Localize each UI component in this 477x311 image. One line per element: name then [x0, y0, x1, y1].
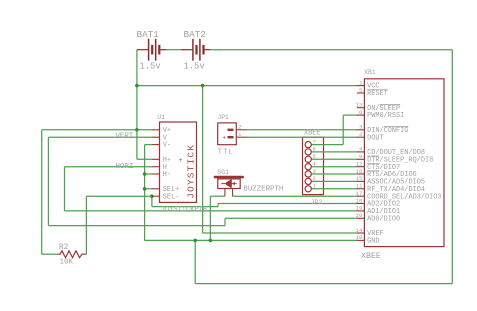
joystick U1 pin stubs	[152, 130, 159, 196]
wire V+ down to H+	[136, 130, 138, 160]
XB1 pin numbers	[356, 79, 363, 241]
svg-text:17: 17	[356, 190, 363, 197]
svg-text:SG1: SG1	[217, 169, 229, 176]
svg-text:16: 16	[356, 168, 363, 175]
U1 pin names	[163, 127, 180, 201]
wire node HORZ to H pin	[65, 166, 153, 168]
svg-text:+: +	[179, 157, 183, 164]
svg-text:TTL: TTL	[218, 148, 234, 156]
wire from BAT2 right along top	[211, 49, 453, 51]
svg-text:+: +	[222, 135, 226, 142]
junction SEL+ row	[143, 187, 147, 191]
wire into H- pin	[145, 173, 153, 175]
wire VERT to AD0 pin	[225, 217, 358, 219]
wire JP2 pin3 to RTS pin	[311, 173, 357, 175]
wire buzzer left leg down	[209, 196, 211, 240]
wire VREF feeder vertical	[202, 86, 204, 233]
svg-text:1: 1	[359, 79, 363, 86]
wire buzzer right to COORD_SEL pin	[233, 195, 358, 197]
wire buzzer left leg horizontal	[210, 195, 225, 197]
junction V+ row	[135, 128, 139, 132]
component box JP1	[218, 123, 237, 145]
wire battery left down to VCC rail	[136, 50, 138, 86]
svg-text:19: 19	[356, 205, 363, 212]
wire VERT bottom run	[48, 225, 225, 227]
svg-text:1.5v: 1.5v	[140, 61, 161, 71]
svg-text:XBEE: XBEE	[361, 252, 381, 261]
svg-text:BAT2: BAT2	[184, 29, 206, 40]
wire VERT jog up	[224, 218, 226, 225]
svg-text:5: 5	[312, 153, 316, 160]
wire V- stub connect	[145, 144, 153, 146]
svg-text:DOUT: DOUT	[367, 134, 384, 142]
svg-text:SEL-: SEL-	[163, 193, 180, 201]
junction GND row buzzer	[209, 239, 213, 243]
svg-text:14: 14	[356, 227, 363, 234]
junction VCC rail VREF feeder	[201, 84, 205, 88]
wire GND row to XB1 GND pin	[145, 239, 358, 241]
svg-text:15: 15	[356, 175, 363, 182]
wire right side vertical	[451, 50, 453, 284]
XB1 pin names	[367, 83, 441, 246]
XB1 overlines	[367, 90, 408, 171]
svg-text:JP1: JP1	[218, 114, 230, 121]
svg-text:1: 1	[238, 131, 242, 138]
wire JP2 pin5 to DTR pin	[311, 158, 357, 160]
wire HORZ vertical	[64, 167, 66, 211]
wire DOUT from JP1	[247, 136, 357, 138]
svg-text:2: 2	[238, 124, 242, 131]
JP2 pin numbers	[312, 138, 316, 189]
svg-text:10: 10	[356, 234, 363, 241]
connector JP1 pins	[228, 130, 248, 137]
svg-text:3: 3	[312, 168, 316, 175]
svg-text:6: 6	[359, 109, 363, 116]
wire SEL- jog up	[217, 204, 219, 207]
svg-text:2: 2	[359, 131, 363, 138]
svg-text:4: 4	[312, 161, 316, 168]
wire node V+ horizontal	[42, 129, 153, 131]
wire riser bottom rail to GND row	[194, 240, 196, 283]
svg-text:18: 18	[356, 197, 363, 204]
svg-text:20: 20	[356, 212, 363, 219]
svg-text:9: 9	[359, 153, 363, 160]
wire R2 right up	[85, 196, 87, 254]
wire R2 to SEL-	[86, 195, 151, 197]
wire into SEL+ pin	[145, 188, 153, 190]
connector JP2 pin circles	[305, 142, 311, 192]
svg-text:JOYSTICK: JOYSTICK	[185, 144, 196, 199]
wire JP2 pin2 to ASSOC pin	[311, 180, 357, 182]
wire SEL- jog down	[151, 196, 153, 206]
wire PWM0 to pin	[343, 114, 357, 116]
wire HORZ to AD1 pin	[65, 210, 358, 212]
svg-text:11: 11	[356, 183, 363, 190]
wire to R2 left	[42, 253, 58, 255]
wire bottom rail	[195, 283, 452, 285]
junction GND row riser	[193, 239, 197, 243]
svg-text:BUZZERPTH: BUZZERPTH	[243, 185, 283, 193]
junction at VCC rail battery	[135, 84, 139, 88]
XBEE XB1 pin stubs	[357, 86, 365, 241]
svg-text:3: 3	[359, 124, 363, 131]
svg-text:R2: R2	[59, 244, 69, 252]
svg-text:GND: GND	[367, 238, 379, 246]
buzzer SG1	[215, 177, 243, 196]
svg-text:XB1: XB1	[364, 69, 376, 76]
svg-text:13: 13	[356, 102, 363, 109]
svg-text:VERT: VERT	[116, 133, 134, 141]
wire battery top rail to XB1 area	[167, 49, 182, 51]
wire SEL- to AD2 pin	[218, 203, 358, 205]
svg-text:1: 1	[312, 183, 316, 190]
wire SEL- run	[152, 206, 218, 208]
junction H- row	[143, 172, 147, 176]
svg-text:5: 5	[359, 87, 363, 94]
svg-text:1.5v: 1.5v	[184, 61, 205, 71]
wire V+ left vertical down to R2	[41, 130, 43, 254]
svg-text:XBEE: XBEE	[304, 130, 321, 138]
component box U1	[160, 122, 197, 202]
svg-text:RESET: RESET	[367, 90, 388, 98]
component box XB1	[364, 79, 444, 247]
wire VREF to pin	[203, 232, 358, 234]
wire VCC rail down to V+ row	[136, 86, 138, 130]
wire JP2 pin4 to CTS pin	[311, 166, 357, 168]
wire GND vertical V- to GND row	[144, 145, 146, 241]
svg-text:HORZ: HORZ	[116, 163, 134, 171]
wire VCC rail	[137, 85, 358, 87]
wire JP2 pin6 to CD pin	[311, 151, 357, 153]
svg-text:2: 2	[312, 175, 316, 182]
svg-text:U1: U1	[157, 114, 165, 121]
wire DIN from JP1	[247, 129, 357, 131]
wire node VERT to V pin	[48, 136, 152, 138]
svg-text:PWM0/RSSI: PWM0/RSSI	[367, 112, 404, 120]
svg-text:H-: H-	[163, 171, 171, 179]
battery BAT2	[181, 39, 211, 61]
wire VERT vertical	[47, 137, 49, 225]
svg-text:10K: 10K	[60, 259, 74, 267]
svg-text:6: 6	[312, 146, 316, 153]
wire PWM0 jog vertical	[342, 115, 344, 145]
svg-text:12: 12	[356, 161, 363, 168]
wire JP2 pin7 to jog	[311, 144, 343, 146]
svg-text:JOYSTICKPTH: JOYSTICKPTH	[161, 206, 207, 214]
svg-text:JP2: JP2	[311, 199, 323, 206]
resistor R2	[58, 251, 87, 258]
wire JP2 pin1 to RF_TX pin	[311, 188, 357, 190]
svg-text:AD0/DIO0: AD0/DIO0	[367, 215, 400, 223]
svg-text:BAT1: BAT1	[137, 29, 160, 40]
battery BAT1	[137, 39, 167, 61]
svg-text:7: 7	[312, 138, 316, 145]
junction SEL- row	[150, 194, 154, 198]
svg-text:4: 4	[359, 146, 363, 153]
component box JP2	[303, 137, 324, 194]
svg-text:V-: V-	[163, 142, 171, 150]
wire into H+ pin	[137, 158, 153, 160]
